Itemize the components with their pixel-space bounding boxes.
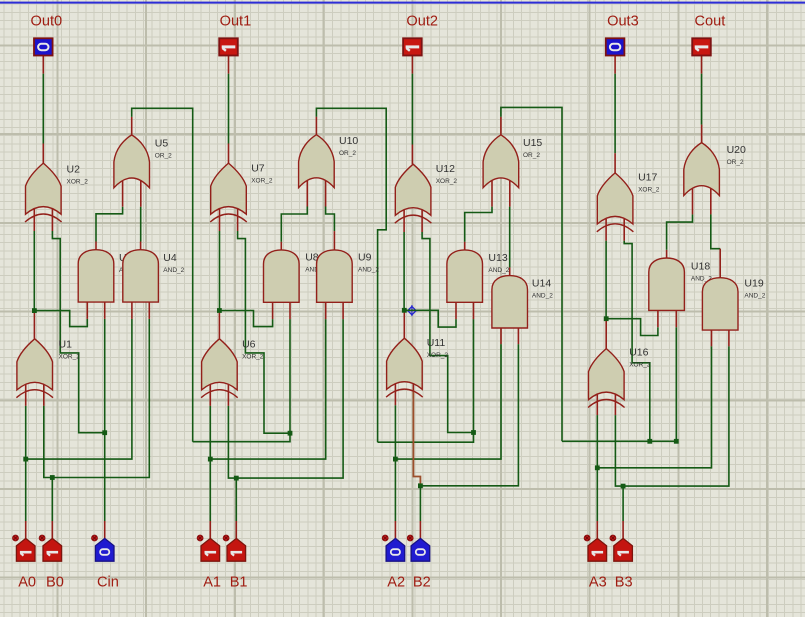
svg-text:U19: U19 — [744, 278, 763, 290]
node S1 stage3 junction — [604, 316, 609, 321]
svg-text:AND_2: AND_2 — [163, 267, 184, 274]
wire B2 to U11.B (red wire) and U14.B — [413, 328, 518, 538]
wire carry1: U10 output loop to stage 2 — [316, 108, 386, 442]
wire U13 output to U15.A — [465, 181, 492, 250]
svg-text:U18: U18 — [691, 261, 710, 273]
svg-text:U14: U14 — [532, 278, 551, 290]
node S1 stage2 junction — [402, 308, 407, 313]
wire U17.B to carry2 node (jogged) — [624, 219, 650, 441]
node carry1 junction — [471, 430, 476, 435]
svg-text:B2: B2 — [413, 575, 431, 591]
svg-text:U13: U13 — [488, 252, 507, 264]
svg-text:Out1: Out1 — [220, 14, 252, 30]
wire U1 output to U3.A — [34, 302, 87, 327]
svg-text:U10: U10 — [339, 135, 358, 147]
logic probe Out0 — [34, 38, 53, 55]
logic state B2 — [407, 535, 429, 561]
logic probe Cout — [692, 38, 711, 55]
wire U8 output to U10.A — [281, 180, 307, 250]
wire U2.A to U1 output (node S1 stage0) — [33, 209, 35, 339]
node B3 junction — [621, 484, 626, 489]
wire U6 output to U8.A — [219, 302, 272, 326]
svg-text:Out2: Out2 — [406, 14, 438, 30]
node B2 junction — [418, 483, 423, 488]
svg-text:U4: U4 — [163, 252, 177, 264]
node carry2 junction left — [647, 439, 652, 444]
logic state B1 — [223, 535, 245, 561]
wire A2 to U11.A and U14.A — [395, 328, 501, 538]
svg-text:U20: U20 — [727, 144, 746, 156]
svg-text:XOR_2: XOR_2 — [436, 178, 458, 185]
xor-gate U12 — [395, 163, 458, 223]
and-gate U19 — [702, 278, 765, 331]
logic state Cin — [92, 535, 114, 561]
wire carry2: U15 output loop to stage 3 — [501, 107, 562, 441]
svg-text:A3: A3 — [589, 575, 607, 591]
wire U2.B to Cin (jogged) — [52, 209, 104, 433]
wire U7.A to U6 output (node S1 stage1) — [218, 209, 220, 339]
or-gate U15 — [483, 135, 542, 188]
wire U12.B to carry1 node (jogged) — [422, 210, 473, 433]
logic probe Out1 — [219, 38, 238, 55]
svg-text:Cout: Cout — [695, 14, 726, 30]
wire Cin to U3.B — [104, 302, 106, 433]
wire U18 output to U20.A — [667, 188, 693, 258]
wire U19 output to U20.B (jogged) — [711, 188, 720, 277]
svg-text:U12: U12 — [436, 163, 455, 175]
logic state A2 — [382, 535, 404, 561]
wire U16 output to U18.A — [606, 310, 658, 335]
logic state A3 — [584, 535, 606, 561]
svg-text:OR_2: OR_2 — [155, 153, 172, 160]
logic state A1 — [197, 535, 219, 561]
svg-text:B0: B0 — [46, 575, 64, 591]
svg-text:XOR_2: XOR_2 — [427, 352, 449, 359]
and-gate U13 — [447, 250, 510, 302]
svg-text:AND_2: AND_2 — [488, 267, 509, 274]
wire carry1 horizontal into stage 2 — [378, 433, 474, 443]
svg-text:XOR_2: XOR_2 — [242, 354, 264, 361]
svg-text:XOR_2: XOR_2 — [629, 362, 651, 369]
svg-text:Cin: Cin — [97, 575, 119, 591]
and-gate U18 — [649, 258, 712, 310]
wire carry2 node to U18.B — [675, 310, 677, 441]
wire Cin terminal up — [104, 433, 106, 539]
xor-gate U1 — [16, 339, 80, 398]
and-gate U3 — [78, 250, 140, 302]
xor-gate U17 — [597, 172, 660, 232]
svg-text:U9: U9 — [358, 252, 372, 264]
wire B1 to U6.B and U9.B — [228, 302, 343, 538]
node carry0 junction — [288, 431, 293, 436]
logic state B0 — [39, 535, 61, 561]
wire U14 output to U15.B — [509, 181, 511, 276]
wire A3 to U16.A and U19.A — [597, 330, 711, 539]
svg-text:OR_2: OR_2 — [523, 152, 540, 159]
node carry2 junction right — [674, 439, 679, 444]
and-gate U9 — [317, 250, 380, 302]
wire Out2 probe to U12 output — [411, 56, 413, 165]
node A1 junction — [208, 457, 213, 462]
svg-text:U6: U6 — [242, 339, 256, 351]
wire U12.A to U11 output (node S1 stage2) — [403, 210, 405, 338]
node B0 junction — [50, 475, 55, 480]
wire U9 output to U10.B (jogged) — [326, 180, 335, 250]
svg-text:A2: A2 — [387, 575, 405, 591]
svg-text:XOR_2: XOR_2 — [59, 354, 81, 361]
svg-text:AND_2: AND_2 — [744, 293, 765, 300]
node S1 stage0 junction — [32, 308, 37, 313]
svg-text:U7: U7 — [251, 163, 265, 175]
wire B0 to U1.B and U4.B — [44, 302, 150, 538]
svg-text:U2: U2 — [67, 164, 81, 176]
svg-text:OR_2: OR_2 — [339, 150, 356, 157]
wire carry0: U5 output loop to stage 1 — [132, 108, 193, 441]
xor-gate U7 — [210, 163, 273, 223]
logic probe Out3 — [606, 38, 625, 55]
sheet border top edge — [0, 2, 805, 4]
svg-text:Out3: Out3 — [607, 14, 639, 30]
wire A1 to U6.A and U9.A — [210, 302, 325, 538]
xor-gate U16 — [588, 347, 651, 408]
svg-text:A1: A1 — [203, 575, 221, 591]
svg-text:U5: U5 — [155, 138, 169, 150]
and-gate U4 — [123, 250, 185, 302]
wire Out1 probe to U7 output — [228, 56, 230, 164]
wire Out3 probe to U17 output — [614, 56, 616, 173]
logic state B3 — [610, 535, 632, 561]
svg-text:AND_2: AND_2 — [358, 267, 379, 274]
xor-gate U11 — [386, 337, 448, 397]
svg-text:Out0: Out0 — [31, 14, 63, 30]
svg-text:AND_2: AND_2 — [532, 293, 553, 300]
wire carry2 horizontal into stage 3 — [562, 440, 676, 442]
svg-text:A0: A0 — [18, 575, 36, 591]
svg-text:XOR_2: XOR_2 — [638, 187, 660, 194]
svg-text:OR_2: OR_2 — [727, 159, 744, 166]
svg-text:XOR_2: XOR_2 — [67, 179, 89, 186]
xor-gate U2 — [25, 163, 88, 222]
svg-text:U15: U15 — [523, 137, 542, 149]
svg-text:XOR_2: XOR_2 — [251, 178, 273, 185]
or-gate U5 — [114, 135, 172, 188]
or-gate U10 — [299, 135, 359, 188]
svg-text:U16: U16 — [629, 347, 648, 359]
node B1 junction — [234, 476, 239, 481]
wire carry0 horizontal into stage 1 — [193, 433, 290, 442]
origin marker — [406, 305, 417, 316]
wire Out0 probe to U2 output — [42, 56, 44, 164]
svg-text:U17: U17 — [638, 172, 657, 184]
wire B3 to U16.B and U19.B — [615, 330, 729, 539]
node A0 junction — [23, 457, 28, 462]
logic state A0 — [13, 535, 35, 561]
and-gate U8 — [264, 250, 327, 302]
node A2 junction — [393, 457, 398, 462]
and-gate U14 — [492, 276, 553, 328]
logic probe Out2 — [403, 38, 422, 55]
wire U3 output to U5.A — [96, 181, 123, 250]
node Cin junction — [102, 430, 107, 435]
svg-text:U11: U11 — [427, 337, 446, 349]
svg-text:U1: U1 — [59, 339, 73, 351]
wire U17.A to U16 output (node S1 stage3) — [605, 219, 607, 349]
wire carry0 node to U8.B — [289, 302, 291, 433]
wire A0 to U1.A and U4.A — [26, 302, 132, 538]
node S1 stage1 junction — [217, 308, 222, 313]
node A3 junction — [595, 465, 600, 470]
or-gate U20 — [684, 143, 746, 196]
svg-text:B1: B1 — [230, 575, 248, 591]
wire U4 output to U5.B — [140, 181, 142, 250]
wire carry1 node to U13.B — [473, 302, 475, 432]
svg-text:B3: B3 — [615, 575, 633, 591]
wire U7.B to carry0 node (jogged) — [238, 209, 290, 433]
wire Cout probe to U20 output — [701, 56, 703, 143]
xor-gate U6 — [201, 339, 264, 398]
wire U11 output to U13.A — [404, 302, 456, 327]
